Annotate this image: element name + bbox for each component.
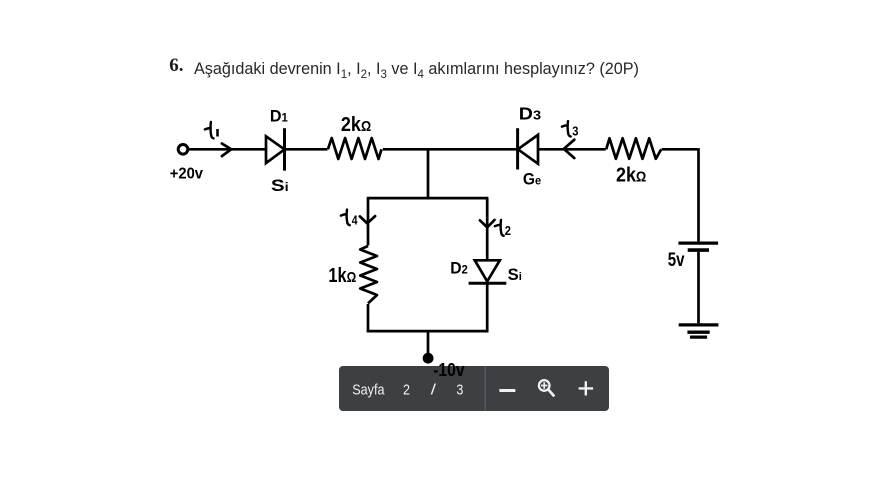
diode D2 cathode bar — [469, 282, 507, 285]
node -10v dot — [423, 353, 434, 364]
svg-text:2kΩ: 2kΩ — [616, 165, 647, 187]
left branch wire lower — [367, 304, 370, 332]
zoom-in plus icon — [579, 382, 594, 396]
diode D1 — [266, 136, 285, 163]
label I1 subscript bar — [216, 129, 219, 137]
svg-text:5v: 5v — [668, 249, 685, 271]
wire R2 to right corner and down to battery — [662, 148, 699, 241]
wire D1 to resistor R1 — [285, 148, 328, 151]
wire R1 to D3 (through node) — [383, 148, 518, 151]
diode D3 triangle — [518, 135, 538, 164]
zoom-out minus icon — [499, 389, 515, 392]
svg-text:Si: Si — [271, 176, 289, 195]
svg-text:4: 4 — [352, 213, 358, 227]
svg-text:3: 3 — [572, 124, 578, 139]
current arrow I3 — [564, 140, 575, 158]
inner branch rectangle bottom — [367, 330, 489, 333]
battery B1 negative plate — [688, 248, 709, 252]
question number — [169, 55, 183, 77]
left branch wire upper — [367, 198, 370, 245]
label I4 glyph — [341, 210, 350, 226]
terminal +20v — [178, 145, 188, 155]
current arrow I4 — [360, 216, 375, 223]
toolbar divider — [484, 366, 486, 411]
label I2 glyph — [495, 220, 504, 236]
magnifier zoom icon — [539, 381, 554, 397]
label I3 glyph — [562, 121, 571, 136]
wire terminal to D1 — [188, 148, 267, 151]
svg-text:Si: Si — [508, 266, 522, 284]
wire D3 to resistor R2 — [538, 148, 606, 151]
resistor R1 2k — [328, 138, 382, 159]
svg-text:D2: D2 — [450, 260, 468, 278]
svg-text:D1: D1 — [270, 106, 288, 125]
inner branch rectangle top — [367, 197, 489, 200]
svg-text:2kΩ: 2kΩ — [341, 113, 372, 136]
svg-text:D3: D3 — [519, 103, 541, 123]
current arrow I1 — [222, 144, 231, 157]
diode D2 triangle — [475, 260, 500, 281]
diode D3 cathode bar — [516, 128, 519, 169]
ground symbol — [679, 323, 719, 326]
question title — [194, 60, 639, 81]
battery B1 positive plate — [678, 241, 718, 244]
right branch wire lower — [486, 283, 489, 332]
pdf viewer toolbar — [339, 366, 609, 411]
svg-text:1kΩ: 1kΩ — [328, 264, 356, 287]
right branch wire upper — [486, 198, 489, 260]
label I1 glyph — [205, 122, 214, 138]
svg-text:Ge: Ge — [523, 170, 541, 189]
wire bottom center to -10v node — [427, 331, 430, 355]
resistor R3 1k — [360, 246, 377, 303]
svg-text:2: 2 — [505, 224, 511, 238]
node junction wire down — [427, 149, 430, 199]
svg-text:-10v: -10v — [433, 359, 465, 380]
current arrow I2 — [480, 220, 495, 228]
wire battery to ground — [697, 252, 700, 323]
svg-text:+20v: +20v — [170, 166, 203, 183]
resistor R2 2k — [606, 138, 661, 159]
